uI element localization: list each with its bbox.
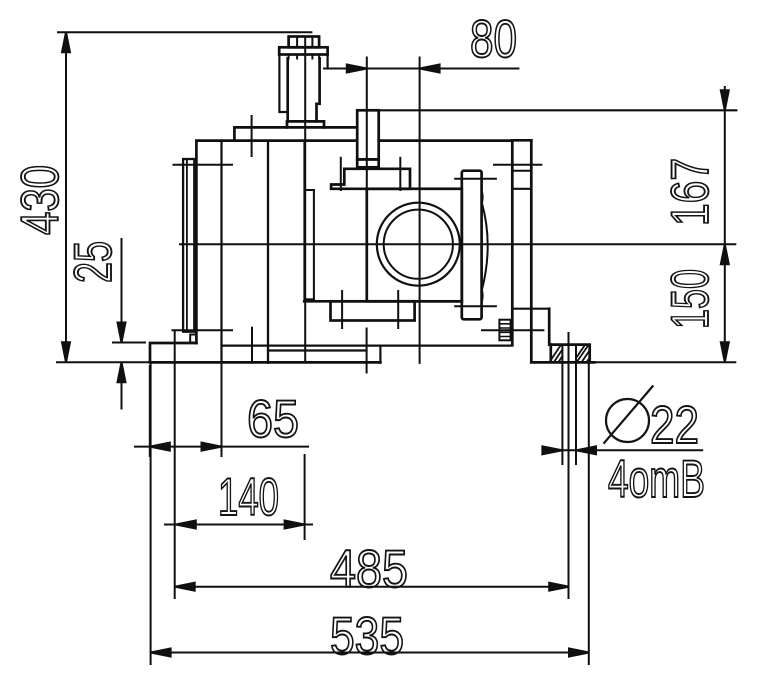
535 left extension: [150, 362, 152, 665]
dim 65 line: [134, 446, 309, 448]
svg-text:535: 535: [330, 607, 404, 666]
svg-text:430: 430: [11, 165, 70, 235]
plug axis line: [304, 37, 306, 363]
right column left edge: [511, 140, 514, 345]
hole left edge extension: [561, 362, 563, 465]
drain plug thread lines: [499, 324, 510, 337]
cover bolt tick lower / drain axis: [482, 329, 543, 331]
housing upper plate: [234, 127, 357, 140]
sump bolt tick: [251, 328, 253, 363]
svg-text:4omВ: 4omВ: [608, 450, 705, 509]
dim 80 line: [323, 68, 519, 70]
housing top face right of stem: [379, 139, 513, 142]
base bottom line right: [531, 361, 594, 364]
base bottom extension right: [594, 361, 736, 363]
bottom flange of central block: [331, 301, 415, 320]
dim 25 line upper: [121, 238, 123, 343]
svg-text:80: 80: [470, 10, 517, 69]
25 dim extension line: [112, 342, 146, 344]
dimension lines with arrows: [62, 32, 729, 656]
dim hole leader line: [543, 449, 703, 451]
bearing cover bolt tick lower: [455, 305, 496, 307]
svg-text:140: 140: [218, 468, 279, 527]
base bottom extension left: [56, 361, 150, 363]
dim 430 line: [65, 32, 67, 362]
breather plug hex head: [289, 37, 320, 48]
plug jacket right: [327, 55, 329, 69]
top flange bolt tick right: [399, 158, 401, 190]
sump inner line: [268, 349, 367, 351]
bottom flange bolt tick right: [397, 291, 399, 328]
right column top cap: [512, 139, 531, 142]
svg-text:65: 65: [247, 390, 299, 449]
bore inner circle: [384, 210, 453, 279]
svg-text:485: 485: [330, 540, 408, 599]
140/485 shared extension line: [174, 330, 176, 599]
left column bearing jacket: [183, 159, 194, 332]
cover bolt tick upper: [494, 164, 541, 166]
left column bottom step: [190, 335, 196, 343]
plug body right with step: [317, 59, 320, 122]
65 left extension: [149, 365, 151, 457]
hex lower facets: [289, 55, 320, 59]
dim 25 line lower: [121, 362, 123, 409]
cover divider upper: [512, 170, 531, 172]
top plate bolt tick: [251, 116, 253, 156]
dim 535 line: [151, 652, 589, 654]
housing mid wall: [267, 141, 269, 363]
bottom flange bolt tick left: [341, 291, 343, 328]
top flange of central block: [331, 169, 410, 189]
diameter symbol circle: [604, 386, 654, 444]
535 right extension / pad edge: [588, 362, 590, 665]
bore outer circle: [377, 203, 460, 286]
left boss divider nub: [305, 189, 314, 191]
housing interior bottom line: [304, 300, 462, 303]
plug collar plate: [279, 47, 327, 54]
left boss bottom nub: [305, 298, 314, 300]
dim 485 line: [175, 586, 570, 588]
left column top bolt tick: [174, 164, 233, 166]
dim 140 line: [164, 524, 313, 526]
horizontal split/center line: [179, 243, 736, 245]
hex facet lines: [296, 37, 298, 48]
left column bottom bolt tick: [173, 329, 233, 331]
pad hatch left: [551, 346, 562, 363]
svg-text:22: 22: [650, 396, 699, 455]
plug jacket left: [279, 55, 287, 113]
hole right edge extension: [575, 362, 577, 465]
base top line: [222, 345, 511, 347]
central block: [367, 189, 462, 301]
140 right extension: [304, 454, 306, 540]
right foot pad section: [551, 345, 590, 363]
housing left wall: [195, 141, 198, 343]
bearing cover disc: [462, 171, 482, 320]
cover flange line lower: [512, 308, 549, 310]
drain plug block: [499, 320, 510, 341]
svg-text:167: 167: [661, 158, 720, 226]
worm wheel arc: [482, 191, 488, 302]
right column right edge: [530, 140, 533, 308]
hole centerline / 485 extension: [568, 332, 570, 599]
left foot pad: [150, 343, 196, 362]
right bracket: [531, 309, 551, 363]
hole edge lines in pad: [562, 345, 576, 363]
cover flange line upper: [512, 188, 531, 190]
plug seat: [287, 121, 324, 127]
main vertical centerline: [419, 58, 421, 363]
top extension line from plug: [57, 31, 312, 33]
65 right extension lower: [221, 362, 223, 457]
stem axis / block left extension line: [366, 58, 368, 373]
base bottom line left: [150, 361, 380, 364]
plug body left: [286, 59, 289, 122]
top flange bolt tick left: [340, 158, 342, 190]
pad hatch right: [576, 345, 589, 362]
bearing seat wall / 65 extension: [220, 141, 222, 362]
sump right wall: [379, 346, 381, 363]
input stem bottom band: [357, 159, 379, 167]
housing top face: [196, 139, 357, 142]
svg-text:150: 150: [661, 269, 720, 329]
left bearing boss inner edge: [313, 190, 315, 301]
left bearing boss edge: [303, 141, 305, 301]
dim 167/150 line: [724, 86, 726, 362]
input stem rectangle: [357, 110, 379, 159]
bearing cover bolt tick upper: [455, 178, 496, 180]
right raised top face: [379, 109, 737, 111]
svg-text:25: 25: [64, 241, 123, 283]
